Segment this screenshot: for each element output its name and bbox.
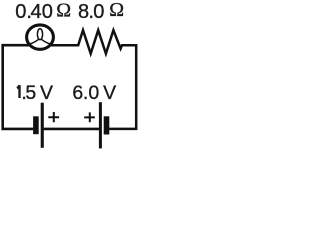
battery 6.0 V plus sign <box>84 112 95 122</box>
svg-text:8.0: 8.0 <box>78 1 104 23</box>
svg-text:.5: .5 <box>21 82 36 104</box>
battery 6.0 V negative thick plate <box>104 116 110 134</box>
lamp filament left lead-in curve <box>28 39 39 44</box>
battery 1.5 V positive thin plate <box>41 103 44 148</box>
svg-text:V: V <box>40 82 53 104</box>
wire: left side (top-left corner, left vertical, bottom-left corner) <box>3 45 34 129</box>
battery 6.0 V positive thin plate <box>99 102 102 148</box>
wire: bottom-middle segment between batteries <box>44 128 100 131</box>
svg-text:Ω: Ω <box>56 0 71 22</box>
wire: lamp to resistor, resistor zigzag, right vertical, bottom-right corner <box>50 30 136 129</box>
lamp filament right lead-out curve <box>41 39 52 44</box>
battery 1.5 V plus sign <box>48 112 59 122</box>
svg-text:V: V <box>103 82 116 104</box>
lamp bulb circle <box>27 25 54 49</box>
svg-text:0.40: 0.40 <box>15 1 53 23</box>
lamp filament loop (oval) <box>37 29 42 40</box>
label 1.5 V (battery 1 voltage) : digit 1 drawn as path (no foot serif) <box>17 85 20 98</box>
battery 1.5 V negative thick plate <box>33 116 39 134</box>
svg-text:6.0: 6.0 <box>72 82 99 104</box>
svg-text:Ω: Ω <box>109 0 124 21</box>
